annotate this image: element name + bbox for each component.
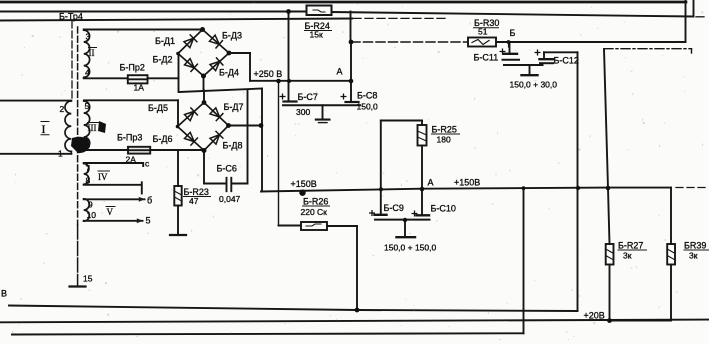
- svg-text:3к: 3к: [689, 251, 698, 261]
- svg-text:300: 300: [296, 107, 310, 117]
- svg-text:5: 5: [85, 101, 90, 111]
- svg-text:I: I: [42, 122, 46, 136]
- svg-text:Б-С9: Б-С9: [384, 203, 404, 213]
- svg-text:II: II: [89, 48, 95, 58]
- svg-text:Б-С8: Б-С8: [357, 91, 377, 101]
- svg-text:IV: IV: [98, 172, 108, 182]
- svg-text:Б-Д1: Б-Д1: [155, 36, 175, 46]
- svg-text:Б-Д3: Б-Д3: [222, 31, 242, 41]
- svg-text:В: В: [1, 289, 7, 299]
- svg-text:Б-Д4: Б-Д4: [219, 68, 239, 78]
- svg-text:+250 В: +250 В: [254, 69, 283, 79]
- svg-text:1А: 1А: [134, 83, 145, 93]
- svg-text:10: 10: [87, 210, 97, 220]
- svg-text:Б-Д8: Б-Д8: [223, 141, 243, 151]
- svg-text:+150В: +150В: [291, 179, 317, 189]
- svg-text:с: с: [145, 159, 150, 169]
- svg-text:180: 180: [437, 135, 451, 145]
- svg-text:Б-Д7: Б-Д7: [224, 102, 244, 112]
- svg-text:47: 47: [189, 196, 199, 206]
- svg-text:БR39: БR39: [684, 241, 706, 251]
- svg-text:+150В: +150В: [454, 178, 480, 188]
- svg-text:Б-С12: Б-С12: [554, 56, 579, 66]
- svg-text:5: 5: [146, 216, 151, 226]
- svg-text:2: 2: [60, 104, 65, 114]
- svg-text:III: III: [88, 123, 97, 133]
- svg-text:Б-Тр4: Б-Тр4: [59, 12, 83, 22]
- svg-text:15: 15: [83, 274, 93, 284]
- svg-text:4: 4: [85, 68, 90, 78]
- svg-text:Б-С6: Б-С6: [217, 164, 237, 174]
- svg-text:+20В: +20В: [584, 311, 605, 321]
- svg-text:А: А: [428, 178, 434, 188]
- svg-text:Б-R27: Б-R27: [618, 241, 643, 251]
- svg-text:3к: 3к: [623, 251, 632, 261]
- svg-text:Б-С7: Б-С7: [298, 92, 318, 102]
- svg-text:б: б: [147, 196, 152, 206]
- svg-text:Б-R25: Б-R25: [432, 125, 457, 135]
- svg-text:9: 9: [88, 200, 93, 210]
- svg-text:Б-Д5: Б-Д5: [148, 103, 168, 113]
- svg-text:2А: 2А: [126, 155, 137, 165]
- svg-text:3: 3: [86, 32, 91, 42]
- svg-text:Б-Д6: Б-Д6: [153, 134, 173, 144]
- svg-text:150,0: 150,0: [357, 102, 379, 112]
- svg-text:0,047: 0,047: [219, 194, 241, 204]
- svg-text:V: V: [107, 207, 114, 217]
- svg-text:220 Ск: 220 Ск: [301, 207, 328, 217]
- svg-text:Б-С10: Б-С10: [431, 204, 456, 214]
- svg-text:Б: Б: [510, 28, 516, 38]
- svg-text:1: 1: [58, 149, 63, 159]
- svg-text:7: 7: [86, 164, 91, 174]
- svg-text:Б-R26: Б-R26: [303, 197, 328, 207]
- svg-text:150,0 + 30,0: 150,0 + 30,0: [510, 80, 558, 90]
- svg-text:150,0 + 150,0: 150,0 + 150,0: [384, 243, 437, 253]
- svg-text:Б-Пр2: Б-Пр2: [120, 63, 145, 73]
- svg-text:Б-Д2: Б-Д2: [153, 55, 173, 65]
- svg-text:Б-Пр3: Б-Пр3: [117, 133, 142, 143]
- svg-text:А: А: [337, 67, 343, 77]
- svg-text:8: 8: [86, 176, 91, 186]
- svg-text:Б-С11: Б-С11: [474, 53, 499, 63]
